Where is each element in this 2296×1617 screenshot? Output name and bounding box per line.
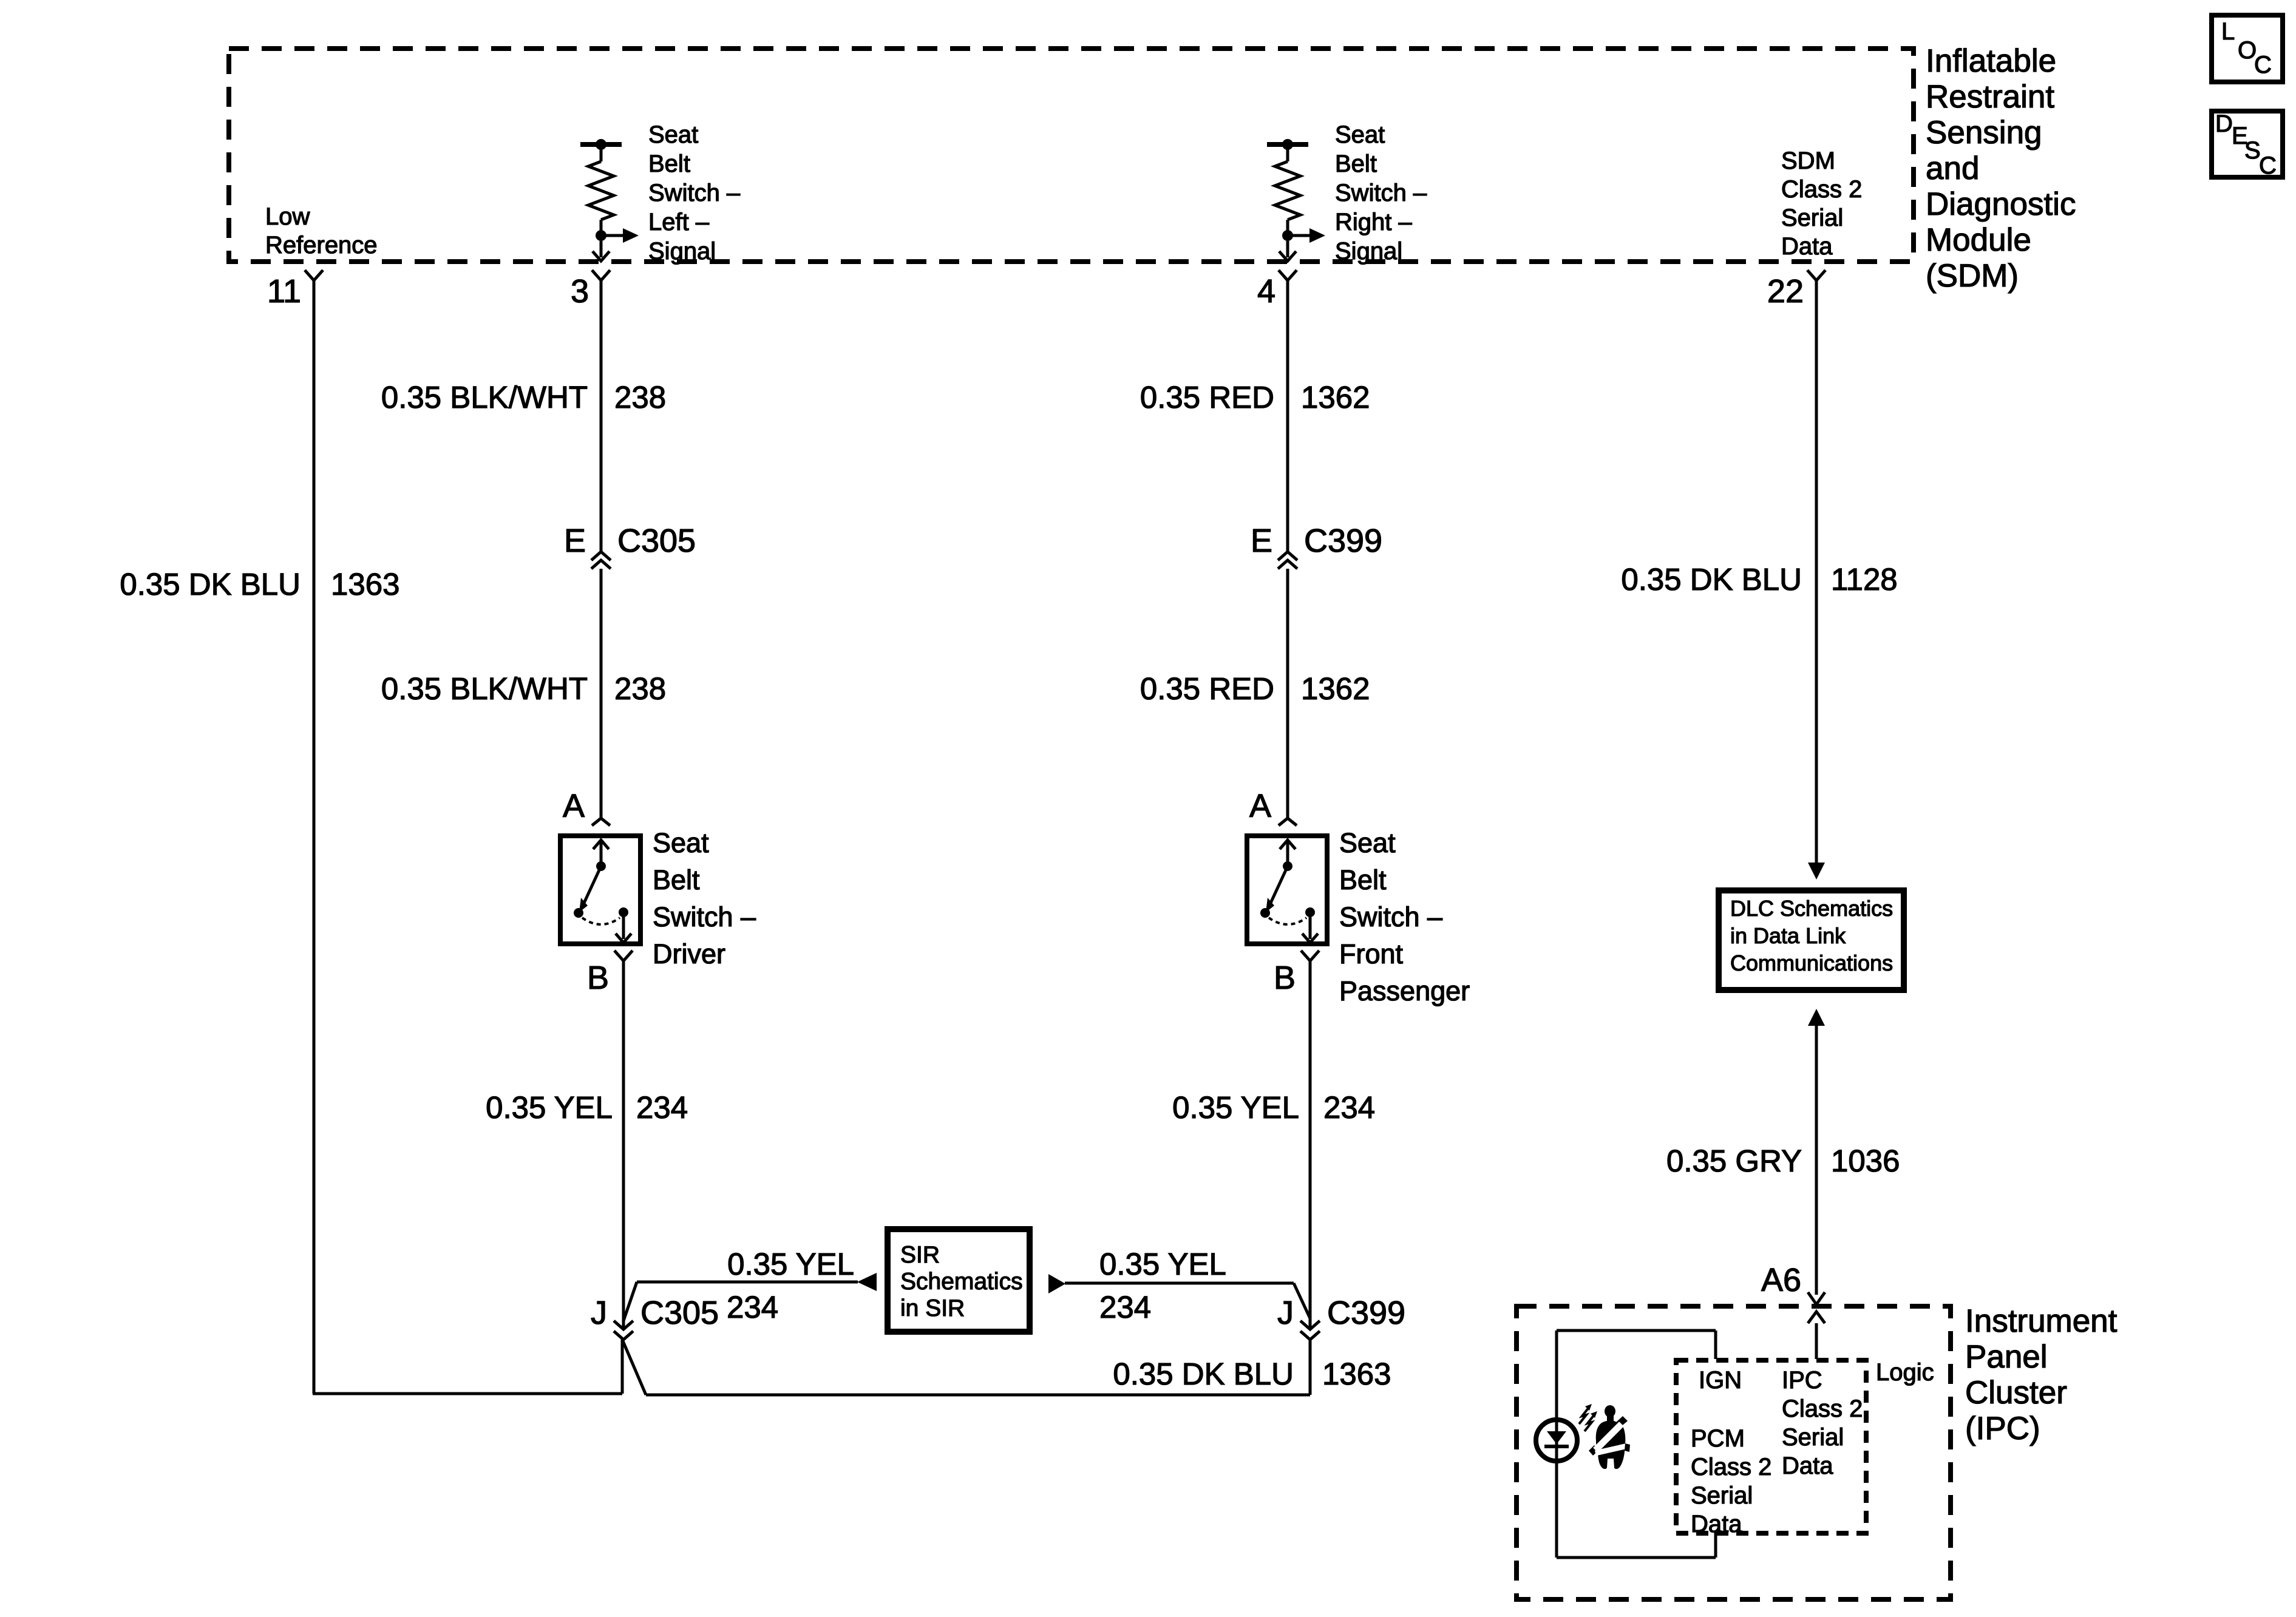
svg-text:Communications: Communications xyxy=(1730,951,1893,975)
svg-text:in SIR: in SIR xyxy=(900,1295,965,1321)
svg-text:Switch –: Switch – xyxy=(653,901,756,932)
svg-text:0.35 DK BLU: 0.35 DK BLU xyxy=(120,567,301,602)
svg-text:L: L xyxy=(2221,18,2235,45)
svg-text:Restraint: Restraint xyxy=(1926,79,2054,115)
svg-text:Data: Data xyxy=(1781,233,1833,260)
svg-text:Driver: Driver xyxy=(653,938,725,969)
svg-text:1363: 1363 xyxy=(1322,1357,1391,1391)
svg-text:0.35 YEL: 0.35 YEL xyxy=(727,1247,854,1281)
svg-text:in Data Link: in Data Link xyxy=(1730,923,1846,948)
svg-text:(IPC): (IPC) xyxy=(1965,1411,2040,1446)
svg-text:Class 2: Class 2 xyxy=(1691,1454,1771,1480)
svg-text:0.35 YEL: 0.35 YEL xyxy=(486,1090,613,1125)
svg-text:Signal: Signal xyxy=(648,238,716,265)
svg-text:Seat: Seat xyxy=(648,121,698,148)
svg-text:Right –: Right – xyxy=(1335,209,1412,236)
svg-text:Inflatable: Inflatable xyxy=(1926,43,2056,79)
svg-text:Module: Module xyxy=(1926,222,2031,258)
svg-text:E: E xyxy=(1251,523,1272,559)
svg-text:Belt: Belt xyxy=(1339,864,1387,895)
svg-text:Reference: Reference xyxy=(265,232,378,259)
svg-text:3: 3 xyxy=(571,273,589,310)
svg-text:C305: C305 xyxy=(640,1295,719,1331)
svg-text:0.35 RED: 0.35 RED xyxy=(1140,671,1274,706)
svg-text:Data: Data xyxy=(1782,1453,1833,1479)
svg-text:and: and xyxy=(1926,151,1979,186)
svg-text:E: E xyxy=(564,523,586,559)
svg-text:Switch –: Switch – xyxy=(1339,901,1442,932)
svg-text:238: 238 xyxy=(614,380,666,415)
svg-text:11: 11 xyxy=(267,273,301,310)
svg-text:Diagnostic: Diagnostic xyxy=(1926,186,2076,222)
svg-text:238: 238 xyxy=(614,671,666,706)
svg-text:D: D xyxy=(2215,110,2233,137)
svg-text:0.35 RED: 0.35 RED xyxy=(1140,380,1274,415)
svg-text:Front: Front xyxy=(1339,938,1404,969)
svg-text:Belt: Belt xyxy=(1335,151,1377,177)
svg-text:4: 4 xyxy=(1257,273,1275,310)
svg-text:Seat: Seat xyxy=(1339,827,1396,858)
svg-text:0.35 GRY: 0.35 GRY xyxy=(1666,1144,1802,1178)
svg-text:SDM: SDM xyxy=(1781,147,1835,174)
svg-text:C: C xyxy=(2259,152,2277,179)
svg-text:Serial: Serial xyxy=(1782,1424,1844,1451)
svg-text:Passenger: Passenger xyxy=(1339,975,1470,1006)
svg-text:0.35 DK BLU: 0.35 DK BLU xyxy=(1113,1357,1294,1391)
svg-text:Class 2: Class 2 xyxy=(1782,1395,1863,1422)
svg-text:Signal: Signal xyxy=(1335,238,1402,265)
svg-text:J: J xyxy=(591,1295,607,1331)
svg-text:SIR: SIR xyxy=(900,1242,940,1268)
svg-text:Serial: Serial xyxy=(1691,1482,1753,1509)
svg-text:Belt: Belt xyxy=(648,151,690,177)
svg-text:Logic: Logic xyxy=(1876,1359,1934,1386)
svg-text:234: 234 xyxy=(1323,1090,1375,1125)
svg-text:Class 2: Class 2 xyxy=(1781,176,1862,203)
svg-text:DLC Schematics: DLC Schematics xyxy=(1730,896,1893,921)
svg-text:0.35 YEL: 0.35 YEL xyxy=(1099,1247,1226,1281)
svg-text:234: 234 xyxy=(727,1290,778,1324)
svg-text:Schematics: Schematics xyxy=(900,1269,1023,1295)
svg-text:Sensing: Sensing xyxy=(1926,115,2042,151)
svg-text:234: 234 xyxy=(1099,1290,1151,1324)
svg-text:PCM: PCM xyxy=(1691,1425,1745,1452)
svg-text:C399: C399 xyxy=(1327,1295,1405,1331)
svg-text:1362: 1362 xyxy=(1301,380,1370,415)
svg-text:S: S xyxy=(2244,137,2261,164)
svg-text:0.35 YEL: 0.35 YEL xyxy=(1172,1090,1299,1125)
svg-text:C305: C305 xyxy=(617,523,696,559)
svg-text:1128: 1128 xyxy=(1831,562,1898,597)
svg-text:1036: 1036 xyxy=(1831,1144,1900,1178)
svg-text:Left –: Left – xyxy=(648,209,710,236)
svg-text:Serial: Serial xyxy=(1781,205,1843,231)
svg-text:IPC: IPC xyxy=(1782,1367,1822,1394)
svg-text:1363: 1363 xyxy=(331,567,399,602)
svg-text:Belt: Belt xyxy=(653,864,700,895)
svg-text:0.35 BLK/WHT: 0.35 BLK/WHT xyxy=(381,671,588,706)
svg-text:A: A xyxy=(563,788,585,824)
svg-text:Switch –: Switch – xyxy=(648,180,741,206)
svg-text:B: B xyxy=(1274,960,1296,996)
svg-text:Panel: Panel xyxy=(1965,1339,2048,1375)
svg-text:0.35 DK BLU: 0.35 DK BLU xyxy=(1621,562,1802,597)
svg-text:22: 22 xyxy=(1767,273,1804,310)
svg-text:J: J xyxy=(1277,1295,1294,1331)
svg-text:0.35 BLK/WHT: 0.35 BLK/WHT xyxy=(381,380,588,415)
svg-text:Seat: Seat xyxy=(1335,121,1385,148)
svg-text:B: B xyxy=(587,960,609,996)
svg-text:(SDM): (SDM) xyxy=(1926,258,2019,294)
svg-text:Seat: Seat xyxy=(653,827,709,858)
svg-text:C399: C399 xyxy=(1304,523,1382,559)
svg-text:1362: 1362 xyxy=(1301,671,1370,706)
svg-text:IGN: IGN xyxy=(1699,1367,1742,1394)
svg-text:A: A xyxy=(1249,788,1271,824)
svg-text:A6: A6 xyxy=(1761,1262,1801,1298)
svg-text:Low: Low xyxy=(265,203,310,230)
svg-text:C: C xyxy=(2254,52,2272,78)
svg-text:Instrument: Instrument xyxy=(1965,1303,2118,1339)
svg-text:234: 234 xyxy=(636,1090,688,1125)
svg-text:Cluster: Cluster xyxy=(1965,1375,2067,1411)
svg-text:Switch –: Switch – xyxy=(1335,180,1427,206)
